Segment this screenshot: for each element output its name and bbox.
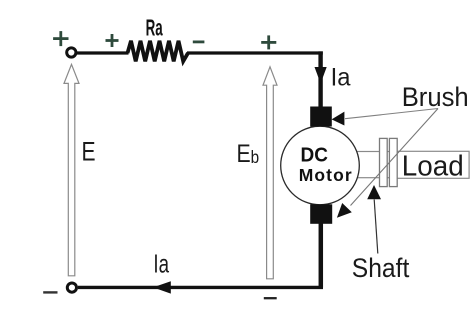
wire top-left horizontal xyxy=(77,51,129,54)
svg-text:E: E xyxy=(82,137,96,167)
plus sign left of resistor xyxy=(106,34,119,47)
minus sign at bottom-left terminal xyxy=(43,291,57,293)
label Shaft xyxy=(352,254,410,283)
label Ra xyxy=(146,15,163,41)
wire top horizontal resistor to corner xyxy=(187,51,323,54)
brush top (black block) xyxy=(310,107,332,127)
terminal bottom-left xyxy=(67,283,76,292)
coupling bar 2 xyxy=(389,138,397,186)
wire right vertical (top) xyxy=(318,51,322,108)
svg-text:Load: Load xyxy=(402,150,464,183)
label DC xyxy=(301,144,328,167)
brush bottom (black block) xyxy=(310,204,332,224)
voltage arrow Eb (outline, pointing up) xyxy=(263,67,277,279)
wire bottom horizontal xyxy=(78,286,323,289)
coupling bar 1 xyxy=(380,138,388,186)
minus sign right of resistor xyxy=(193,41,205,44)
arrow to top brush xyxy=(332,112,345,126)
current arrow Ia (top, pointing down) xyxy=(315,67,327,84)
brush pointer line (to top brush) xyxy=(345,109,438,119)
svg-text:Ia: Ia xyxy=(331,64,351,92)
resistor Ra zigzag xyxy=(128,41,189,62)
shaft pointer line xyxy=(374,200,378,254)
load box xyxy=(397,151,469,178)
svg-text:Motor: Motor xyxy=(299,165,353,185)
label Eb xyxy=(237,139,260,167)
current arrow Ia (bottom, pointing left) xyxy=(153,281,171,293)
terminal top-left xyxy=(67,48,76,57)
brush pointer line (to bottom brush) xyxy=(351,109,439,206)
motor body circle xyxy=(281,126,360,205)
label Load xyxy=(402,150,464,183)
voltage arrow E (outline, pointing up) xyxy=(64,64,79,275)
wire right vertical (bottom) xyxy=(319,224,324,288)
shaft band between motor and load xyxy=(345,152,397,178)
shaft pointer arrowhead xyxy=(367,185,381,199)
label E xyxy=(82,137,96,167)
svg-text:Ia: Ia xyxy=(153,249,169,279)
label Motor xyxy=(299,165,353,185)
svg-text:Brush: Brush xyxy=(402,81,469,112)
plus sign at top-left terminal xyxy=(53,31,68,46)
plus sign above Eb xyxy=(261,35,276,49)
label Brush xyxy=(402,81,469,112)
arrow to bottom brush xyxy=(337,203,352,218)
minus sign below Eb xyxy=(264,297,277,299)
svg-text:Ra: Ra xyxy=(146,15,163,41)
svg-text:Shaft: Shaft xyxy=(352,254,410,283)
label Ia top xyxy=(331,64,351,92)
svg-text:DC: DC xyxy=(301,144,328,167)
label Ia bottom xyxy=(153,249,169,279)
